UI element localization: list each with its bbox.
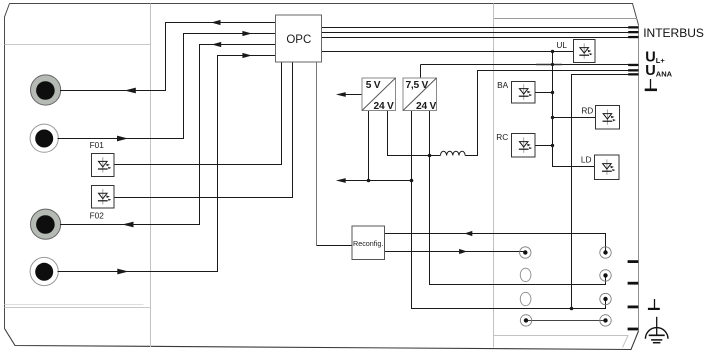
svg-text:F02: F02 [90, 210, 105, 220]
svg-text:INTERBUS: INTERBUS [643, 26, 704, 40]
svg-text:OPC: OPC [286, 34, 311, 46]
svg-text:UL: UL [556, 40, 567, 50]
svg-text:F01: F01 [90, 140, 105, 150]
svg-text:7,5 V: 7,5 V [406, 80, 429, 91]
svg-text:24 V: 24 V [374, 101, 394, 112]
svg-text:UANA: UANA [645, 63, 672, 79]
svg-text:RC: RC [496, 132, 508, 142]
svg-text:RD: RD [581, 105, 593, 115]
svg-text:LD: LD [581, 155, 592, 165]
svg-text:5 V: 5 V [366, 80, 381, 91]
svg-text:24 V: 24 V [416, 101, 436, 112]
svg-text:Reconfig.: Reconfig. [353, 239, 383, 248]
svg-text:BA: BA [497, 80, 509, 90]
